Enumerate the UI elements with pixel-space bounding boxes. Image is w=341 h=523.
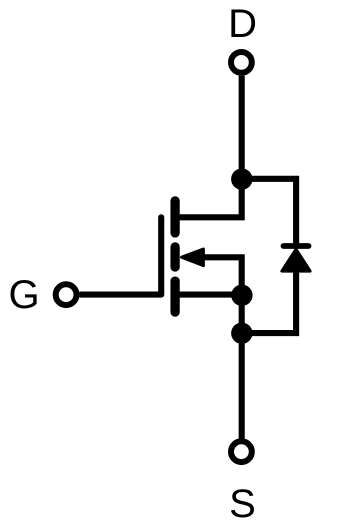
wire gate: G terminal to gate line bbox=[79, 292, 161, 298]
svg-text:G: G bbox=[8, 273, 39, 317]
transistor Q1 body channel bar bbox=[170, 247, 179, 267]
svg-text:S: S bbox=[229, 482, 256, 523]
svg-text:D: D bbox=[228, 2, 257, 46]
junction dot diode bottom bbox=[231, 323, 252, 344]
wire body: arrow to source junction bbox=[202, 257, 242, 296]
transistor Q1 source channel bar bbox=[170, 281, 179, 312]
wire source stub: source bar to junction bbox=[175, 292, 242, 298]
wire drain: D terminal down then left to drain bar bbox=[175, 76, 242, 218]
transistor Q1 drain channel bar bbox=[170, 201, 179, 233]
terminal G bbox=[56, 284, 77, 305]
diode D1 cathode bar bbox=[284, 243, 309, 249]
transistor Q1 gate line bbox=[158, 217, 164, 294]
junction dot drain/diode bbox=[231, 168, 252, 189]
terminal D bbox=[231, 52, 252, 73]
diode D1 anode triangle bbox=[282, 249, 310, 271]
junction dot source bbox=[231, 285, 252, 306]
wire diode branch bottom bbox=[242, 270, 296, 333]
terminal S bbox=[231, 441, 252, 462]
wire source: junction down to S terminal bbox=[239, 295, 245, 439]
transistor Q1 body arrow bbox=[182, 249, 204, 266]
wire diode branch top bbox=[242, 179, 296, 246]
